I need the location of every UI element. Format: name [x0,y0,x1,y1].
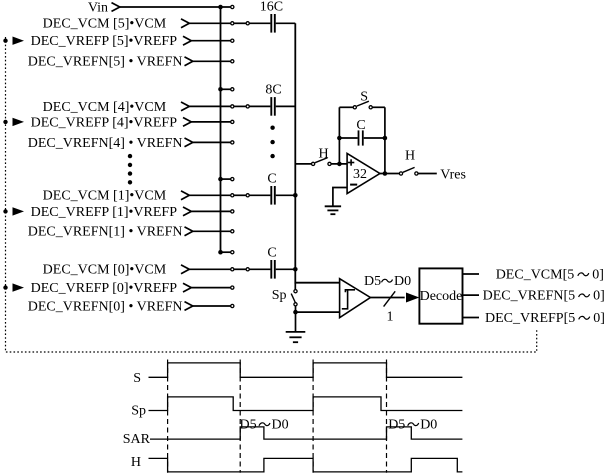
input arrow VCM5 [181,19,189,28]
timing dashed marker 3 [312,360,314,473]
switch contact VCM1 b [246,194,249,197]
decoder U3 box [419,268,462,323]
input arrow Vin [112,3,120,12]
wire switch VCM0 [234,268,246,270]
svg-text:0]: 0] [593,311,605,326]
switch H1 contact b [328,162,331,165]
svg-text:DEC_VREFP [1]•VREFP: DEC_VREFP [1]•VREFP [31,205,178,220]
svg-text:DEC_VCM[5: DEC_VCM[5 [496,267,575,282]
wire VREFN1 [193,230,231,232]
switch contact VREFN5 [231,60,234,63]
wire feedback right leg [384,107,386,173]
input arrow VREFP1 [183,207,191,216]
svg-text:DEC_VCM [5]•VCM: DEC_VCM [5]•VCM [43,17,167,32]
waveform S [149,363,463,377]
switch contact VCM0 a [231,268,234,271]
switch contact tap4 [231,88,234,91]
wire Vin tap group1 [221,178,231,180]
svg-text:DEC_VREFP [0]•VREFP: DEC_VREFP [0]•VREFP [31,281,178,296]
wire to comparator lower input [296,311,340,313]
wire S-switch row right [373,106,385,108]
wire C0 to top-plate bus [276,268,296,270]
wire to capacitor 16C [250,22,271,24]
dashed feedback net [6,37,537,352]
wire VCM4 [189,105,230,107]
svg-text:DEC_VCM [0]•VCM: DEC_VCM [0]•VCM [43,263,167,278]
ellipsis capacitor column [270,126,274,159]
wire to Vres [418,173,437,175]
waveform H [149,458,463,472]
wire VCM1 [189,194,230,196]
svg-text:DEC_VREFN[4] • VREFN: DEC_VREFN[4] • VREFN [28,136,183,151]
junction dashed VREFP1 [3,209,7,213]
switch S contact b [369,106,372,109]
wire C1 to top-plate bus [276,194,296,196]
timing dashed marker 2 [239,360,241,473]
junction tap4 [218,87,223,92]
svg-text:DEC_VREFN[5: DEC_VREFN[5 [483,289,576,304]
capacitor 16C [271,14,275,33]
input arrow VCM4 [181,102,189,111]
wire decode out VREFP [463,317,480,319]
junction comparator minus node [293,310,298,315]
svg-text:DEC_VREFN[0] • VREFN: DEC_VREFN[0] • VREFN [28,299,183,314]
junction dashed VREFP0 [3,285,7,289]
ellipsis label column [128,154,132,185]
switch contact VCM0 b [246,268,249,271]
switch Sp contact a [294,290,297,293]
svg-text:DEC_VREFN[1] • VREFN: DEC_VREFN[1] • VREFN [28,225,183,240]
wire VREFN5 [193,60,231,62]
switch contact Vin [231,5,234,8]
svg-text:H: H [405,149,415,164]
wire Vin bus (vertical) [220,7,222,252]
switch contact VREFN1 [231,230,234,233]
wire op-amp output [380,173,399,175]
svg-text:DEC_VCM [4]•VCM: DEC_VCM [4]•VCM [43,100,167,115]
wire 8C to top-plate bus [276,105,296,107]
switch Sp blade [291,294,295,303]
junction feedback cap left [337,136,342,141]
switch S contact a [353,106,356,109]
junction feedback node [337,162,342,167]
svg-text:C: C [356,118,365,133]
capacitor C feedback [359,130,363,145]
waveform Sp [149,397,463,411]
switch contact tap1 [231,178,234,181]
wire VREFP4 [191,121,230,123]
input arrow VCM1 [181,191,189,200]
wire S-switch row left [339,106,353,108]
switch contact VREFP0 [231,286,234,289]
wire Vin tap group0 [221,251,231,253]
svg-text:S: S [133,371,141,386]
svg-text:Sp: Sp [272,288,287,303]
waveform SAR [150,427,462,439]
switch contact VCM4 a [231,105,234,108]
arrowhead dashed VREFP5 [13,37,25,45]
bus slash 1-bit [384,291,396,306]
wire Vin to bus [120,6,231,8]
op-amp U1 [347,153,380,193]
svg-text:H: H [318,147,328,162]
junction tap0 [218,250,223,255]
junction dashed VREFP5 [3,39,7,43]
junction tap1 [218,177,223,182]
switch H2 contact a [399,172,402,175]
switch contact VCM5 b [246,22,249,25]
wire decode out VCM [463,273,480,275]
svg-text:D5: D5 [364,274,381,289]
svg-text:H: H [131,455,141,470]
switch contact VCM1 a [231,194,234,197]
junction op-amp output [383,171,388,176]
junction C0-bus [293,267,298,272]
capacitor C0 [271,260,275,279]
svg-text:DEC_VCM [1]•VCM: DEC_VCM [1]•VCM [43,189,167,204]
ground comparator [286,332,306,342]
wire top-plate bus [295,23,339,282]
op-amp minus sign [350,184,357,186]
switch contact tap0 [231,251,234,254]
wire to capacitor C1 [250,194,271,196]
wire to op-amp + input [331,163,347,165]
svg-text:D5: D5 [240,417,257,432]
wire 16C to top-plate bus [276,22,296,24]
arrowhead dashed VREFP4 [13,118,25,126]
ground op-amp [325,206,341,214]
capacitor 8C [271,97,275,116]
svg-text:C: C [267,172,276,187]
wire Sp stub [294,283,296,290]
wire to feedback capacitor [339,137,357,139]
junction feedback cap right [383,136,388,141]
svg-text:Sp: Sp [131,404,146,419]
wire VCM0 [189,268,230,270]
svg-text:S: S [360,89,368,104]
wire VREFN0 [193,305,231,307]
input arrow VCM0 [181,265,189,274]
switch contact VREFP1 [231,210,234,213]
wire comparator output [370,297,404,299]
wire VREFN4 [193,141,231,143]
op-amp plus sign [348,159,354,165]
wire switch VCM5 [234,22,246,24]
svg-text:Decode: Decode [420,289,463,304]
svg-text:DEC_VREFP [5]•VREFP: DEC_VREFP [5]•VREFP [31,34,178,49]
junction C1-bus [293,193,298,198]
svg-text:DEC_VREFP[5: DEC_VREFP[5 [485,311,575,326]
svg-text:D0: D0 [420,417,437,432]
wire decode out VREFN [463,294,480,296]
capacitor C1 [271,186,275,205]
switch contact VREFP5 [231,39,234,42]
timing dashed marker 4 [386,360,388,473]
switch contact VCM4 b [246,105,249,108]
switch H1 blade [315,158,328,163]
wire to capacitor C0 [250,268,271,270]
switch contact VCM5 a [231,22,234,25]
input arrow VREFN1 [185,227,193,236]
wire VREFP5 [191,40,230,42]
input arrow VREFN0 [185,302,193,311]
svg-text:1: 1 [387,309,394,324]
wire to capacitor 8C [250,105,271,107]
svg-text:DEC_VREFN[5] • VREFN: DEC_VREFN[5] • VREFN [28,55,183,70]
junction Vin-bus [218,5,223,10]
svg-text:D0: D0 [272,417,289,432]
arrowhead dashed VREFP0 [13,283,25,291]
svg-text:D5: D5 [388,417,405,432]
svg-text:Vin: Vin [88,1,108,16]
switch H2 blade [403,167,415,172]
svg-text:16C: 16C [260,0,283,15]
switch contact VREFP4 [231,120,234,123]
svg-text:C: C [267,246,276,261]
svg-text:8C: 8C [265,83,281,98]
junction dashed VREFP4 [3,120,7,124]
svg-text:D0: D0 [394,274,411,289]
wire Vin tap group4 [221,88,231,90]
comparator hysteresis symbol [342,290,355,309]
wire VCM5 [189,22,230,24]
wire feedback cap to right leg [364,137,385,139]
wire VREFP0 [191,287,230,289]
switch H2 contact b [415,172,418,175]
svg-text:0]: 0] [592,267,604,282]
input arrow VREFN5 [185,57,193,66]
switch contact VREFN4 [231,141,234,144]
wire down to ground [295,312,297,332]
switch contact VREFN0 [231,304,234,307]
wire Sp to ground node [295,306,297,312]
input arrow VREFP0 [183,283,191,292]
svg-text:0]: 0] [593,289,605,304]
wire H-switch branch [295,163,311,165]
input arrow VREFN4 [185,138,193,147]
wire switch VCM4 [234,105,246,107]
svg-text:Vres: Vres [440,168,466,183]
wire op-amp - input to ground [333,188,347,207]
switch S blade [357,101,369,106]
switch H1 contact a [312,162,315,165]
input arrow VREFP4 [183,118,191,127]
timing dashed marker 1 [167,360,169,473]
svg-text:32: 32 [353,167,367,182]
input arrow VREFP5 [183,36,191,45]
wire feedback left leg [338,107,340,164]
wire switch VCM1 [234,194,246,196]
arrowhead into decoder [406,293,419,303]
arrowhead dashed VREFP1 [13,207,25,215]
comparator U2 [340,279,371,318]
switch Sp contact b [294,303,297,306]
svg-text:DEC_VREFP [4]•VREFP: DEC_VREFP [4]•VREFP [31,115,178,130]
svg-text:SAR: SAR [123,432,151,447]
wire VREFP1 [191,210,230,212]
